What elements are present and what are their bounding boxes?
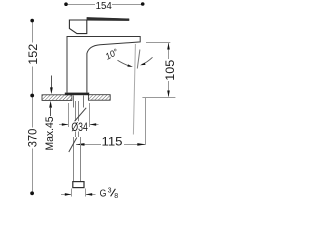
dimension 115: arrows <box>76 143 85 146</box>
faucet: body and spout outline <box>67 37 140 93</box>
svg-text:Max.45: Max.45 <box>44 117 56 151</box>
svg-text:3: 3 <box>108 188 112 195</box>
dimension 105: arrows <box>167 43 170 50</box>
tailpiece tube <box>76 101 79 137</box>
svg-text:152: 152 <box>26 43 40 64</box>
outlet level extension line (right of spout tip) <box>146 42 170 44</box>
10-degree arc right wing <box>142 57 153 64</box>
10-degree arc left wing <box>118 60 131 66</box>
supply hose <box>74 137 81 182</box>
dimension 154 top: line <box>66 4 143 6</box>
svg-text:115: 115 <box>102 134 123 148</box>
svg-text:8: 8 <box>114 193 118 200</box>
hose break slash lower <box>69 138 77 153</box>
svg-text:G: G <box>100 189 107 200</box>
dimension 105: vertical line <box>168 43 170 97</box>
faucet: lever front block <box>69 20 86 34</box>
svg-text:370: 370 <box>25 128 39 147</box>
hose break slash upper <box>72 108 86 125</box>
svg-text:Ø34: Ø34 <box>71 122 88 134</box>
dimension diameter 34: extension lines <box>69 103 90 127</box>
dimension Max.45: down arrow above counter <box>51 76 53 89</box>
dimension Max.45: up arrow below counter <box>49 101 52 108</box>
counter hatch left block <box>42 95 72 101</box>
dimension G3/8: arrows <box>61 194 71 196</box>
dimension G3/8: extension lines <box>72 189 86 197</box>
G3/8 text: fraction slash <box>111 189 116 197</box>
dimension 154: end dots <box>64 2 68 6</box>
aerator 10-degree tilted line <box>137 50 140 69</box>
threaded shank below counter <box>74 95 84 107</box>
dimension 115: vertical connector from counter level <box>145 97 147 144</box>
left dimension line x=32 (152 / 370) <box>32 21 34 194</box>
counter hatch right block <box>88 95 110 101</box>
left dimension: dots <box>30 19 34 23</box>
faucet: lever handle bar <box>87 17 129 20</box>
faucet base plate <box>65 93 89 96</box>
water stream vertical reference line <box>133 44 135 135</box>
dimension diameter 34: text backing <box>71 121 89 131</box>
svg-text:154: 154 <box>96 1 113 12</box>
dimension diameter 34: arrows <box>59 124 68 126</box>
hose end fitting <box>73 182 84 188</box>
dimension 115: line <box>76 144 146 146</box>
svg-text:105: 105 <box>163 59 177 80</box>
counter level extension line (right) <box>142 97 175 99</box>
